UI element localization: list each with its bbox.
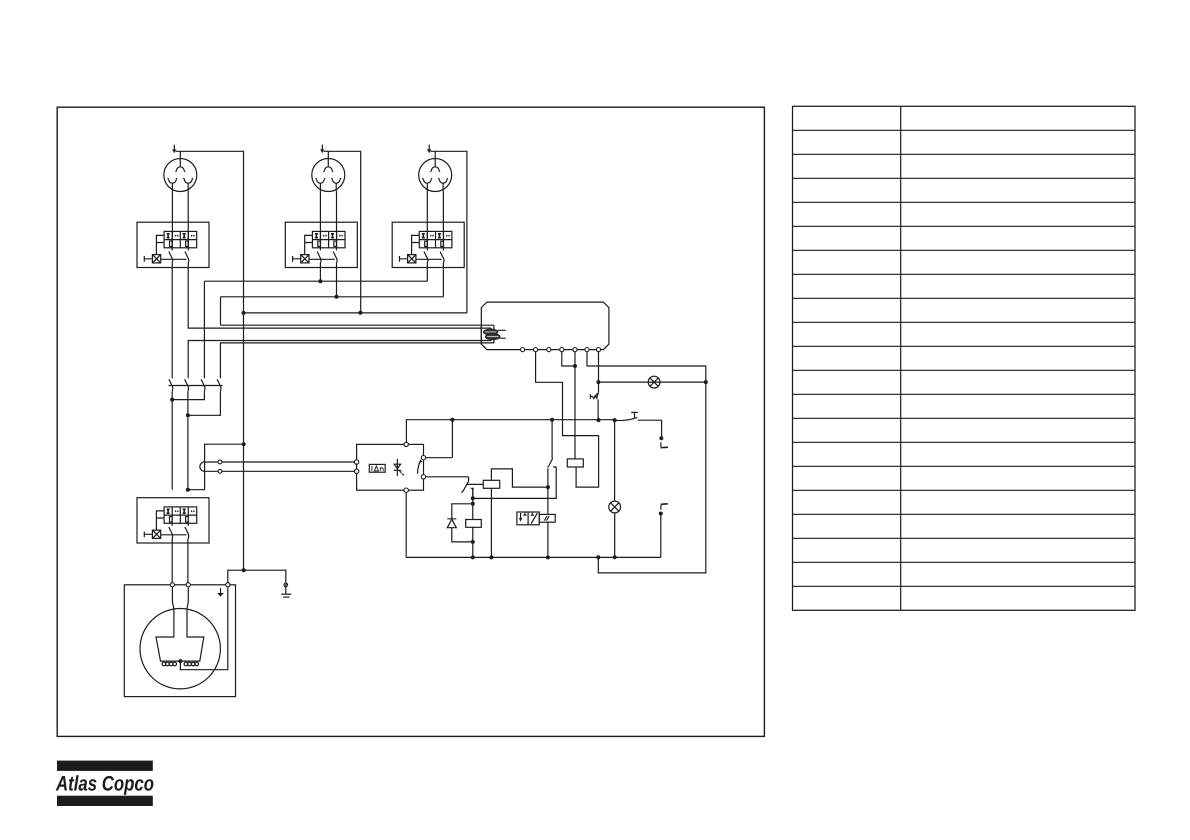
wire socket X2 top to bus	[324, 151, 361, 312]
wire C from connector	[188, 341, 491, 379]
ELR label IΔn	[369, 464, 385, 472]
wire to earth electrode	[244, 570, 286, 583]
controller A1 box	[481, 302, 609, 350]
lamp H1	[648, 376, 660, 388]
coil K2b	[466, 520, 482, 528]
contact K1b	[473, 420, 556, 515]
ELR LED	[394, 459, 405, 476]
component list table	[793, 106, 1136, 610]
breaker Q3	[392, 222, 464, 267]
drawing frame	[57, 107, 764, 736]
wire Q1 pole2 to connector wire B	[188, 263, 491, 328]
controller terminals	[521, 348, 601, 352]
socket X2	[312, 145, 345, 192]
wire t6 to right bus	[587, 352, 706, 573]
wire t5 to coil K2 top	[574, 352, 576, 459]
wire socket X1 top to bus	[176, 151, 244, 313]
wire to generator star point	[228, 570, 244, 585]
socket X3	[419, 145, 452, 192]
solenoid wire to rail	[547, 522, 549, 557]
coil K1	[467, 469, 549, 558]
generator G1 box	[124, 585, 235, 697]
toroid T1	[200, 462, 205, 472]
wire socket X1 to Q1 poles	[172, 191, 188, 247]
connector X10 rectangles	[481, 325, 494, 343]
wire t2 path	[536, 352, 599, 487]
wire A to connector	[221, 324, 494, 326]
breaker Q1	[137, 222, 209, 267]
ELR internal contact	[418, 460, 423, 474]
wire ELR top right to rail	[426, 420, 453, 458]
switch blade S2 lower	[659, 512, 663, 516]
wire lamp H1 branch	[598, 381, 705, 383]
lamp H2	[609, 501, 621, 513]
ELR K3 box	[357, 444, 424, 490]
wire socket X3 to Q3 poles	[427, 191, 443, 247]
control top rail	[406, 420, 661, 445]
wire toroid to ELR	[205, 462, 357, 471]
wire lamp H2 branch	[614, 420, 616, 557]
switch blade S2 upper	[661, 420, 663, 438]
diode V1	[447, 504, 473, 542]
valve Y1	[517, 512, 555, 525]
generator box terminals	[170, 583, 230, 587]
wire Q1 pole1 down	[171, 263, 173, 378]
Atlas Copco logo	[55, 761, 154, 806]
pressure switch S1	[616, 412, 638, 420]
wire bus L2 (Q2/Q3 pole2)	[221, 263, 444, 325]
breaker Q2	[285, 222, 357, 267]
thermal contact F1	[590, 393, 598, 420]
wire ELR bottom to rail	[405, 492, 407, 557]
breaker Q4	[137, 498, 209, 543]
ground symbol	[281, 587, 291, 597]
svg-text:Atlas Copco: Atlas Copco	[55, 772, 154, 795]
wire t4 path	[562, 352, 575, 366]
wire Q4 poles to generator	[172, 539, 188, 585]
connector X10 plug	[484, 329, 506, 340]
wire socket X3 top to bus	[431, 151, 467, 313]
wire D from connector	[220, 343, 494, 378]
contact K3a	[426, 477, 474, 498]
control bottom rail	[406, 556, 661, 558]
wire to toroid	[188, 444, 244, 490]
generator box arrow	[217, 588, 224, 597]
wire PE bus down	[243, 313, 245, 570]
bolted joint	[284, 583, 288, 587]
wire bus PE (socket tops)	[244, 312, 467, 314]
coil K2	[567, 459, 583, 467]
wire bank out pair 1-3	[172, 391, 204, 490]
ELR terminals	[354, 442, 425, 492]
socket X1	[164, 145, 197, 192]
wire K2 branch	[472, 488, 474, 557]
wire bank out pair 2-4	[188, 391, 221, 490]
wire bus L1 (Q2/Q3 pole1)	[204, 263, 427, 378]
generator G1	[140, 587, 228, 689]
contact bank Q5	[169, 379, 223, 391]
wire t7 down	[598, 352, 600, 393]
wire socket X2 to Q2 poles	[320, 191, 336, 247]
